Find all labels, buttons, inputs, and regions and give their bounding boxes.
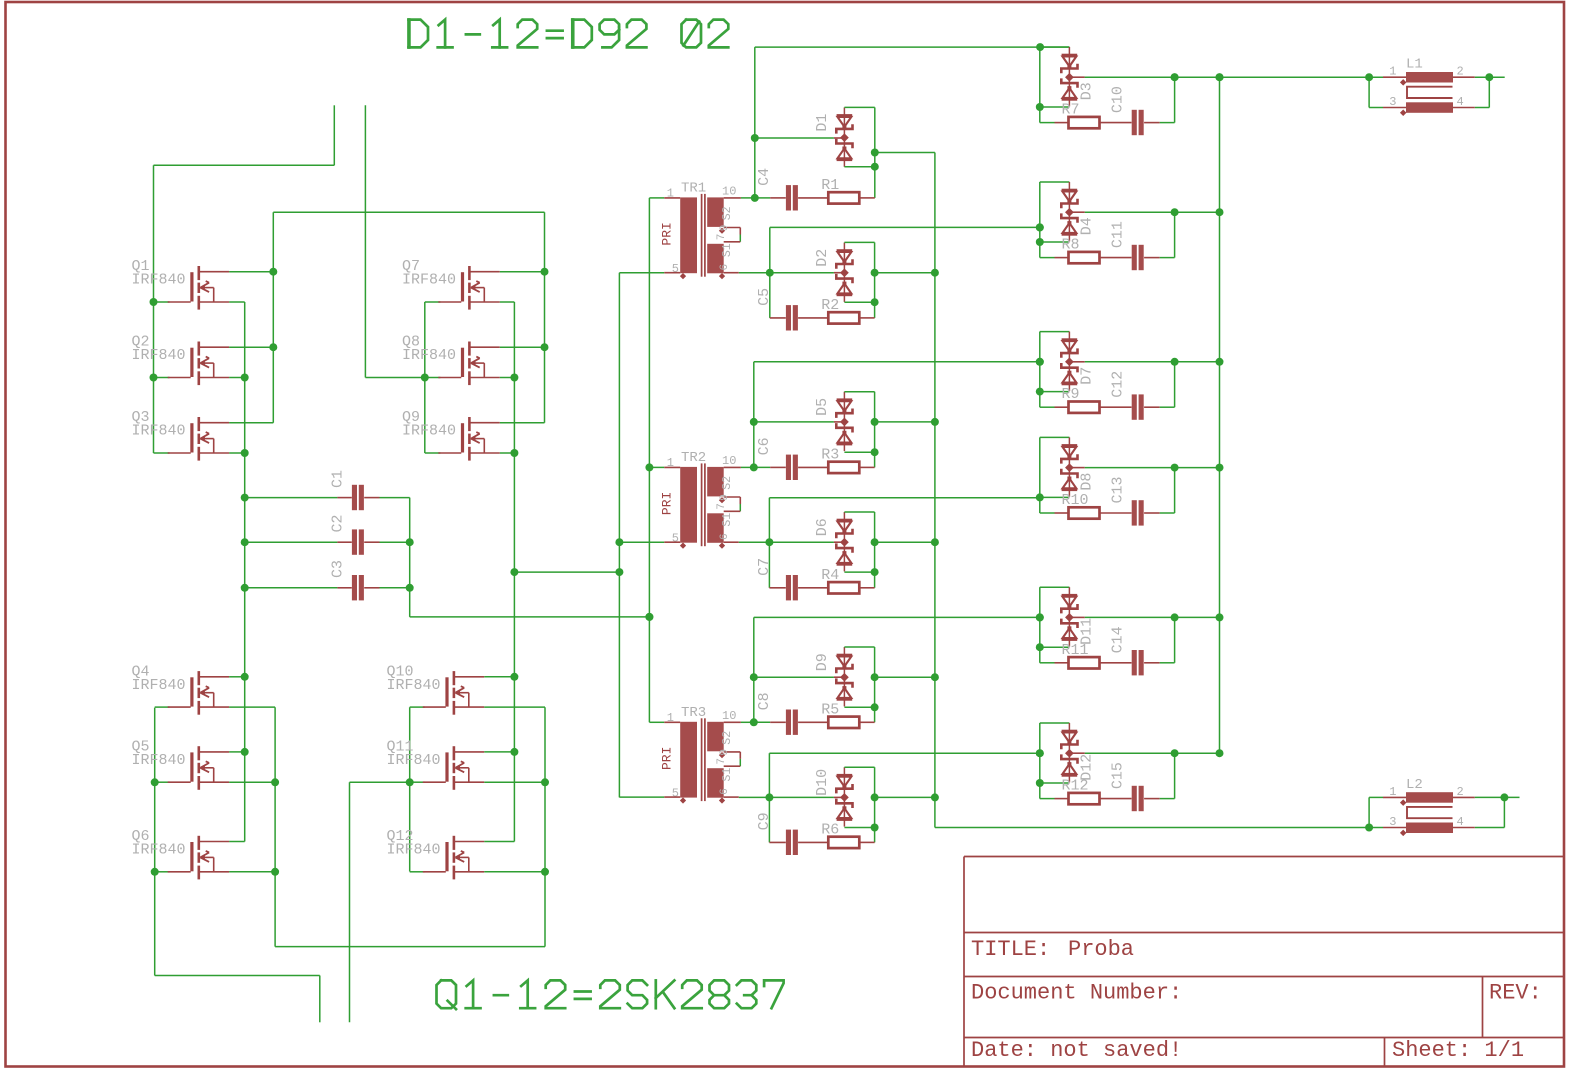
inductor L2 [1368, 797, 1370, 827]
svg-text:R9: R9 [1062, 386, 1080, 403]
junction at 754.8,138.0 [751, 134, 759, 142]
diode D2 [843, 243, 845, 302]
capacitor C1 [352, 485, 357, 510]
resistor R7 [1069, 117, 1100, 128]
wire TR1 pin5 riser to D4 input [769, 227, 771, 318]
junction at 1174.6,212.2 [1171, 208, 1179, 216]
junction at 514.4,676.8 [510, 673, 518, 681]
svg-text:R10: R10 [1062, 492, 1089, 509]
svg-text:L1: L1 [1406, 57, 1423, 73]
junction at 545,871.8 [541, 868, 549, 876]
resistor R8 [1069, 252, 1100, 263]
transistor Q6 [190, 842, 193, 871]
svg-text:5: 5 [672, 262, 679, 276]
transistor Q7 [461, 272, 464, 301]
transistor Q1 [190, 272, 193, 301]
junction at 244.7,497.6 [241, 494, 249, 502]
svg-text:D4: D4 [1078, 217, 1095, 235]
svg-text:R1: R1 [821, 177, 839, 194]
svg-text:C3: C3 [330, 560, 347, 578]
wire TR pin stubs [649, 466, 664, 468]
svg-text:TR1: TR1 [681, 180, 706, 196]
capacitor C11 [1132, 245, 1137, 270]
junction at 769.4,542.2 [765, 538, 773, 546]
svg-text:D3: D3 [1078, 82, 1095, 100]
wire top rail between drain buses [273, 211, 544, 213]
svg-text:TITLE:: TITLE: [971, 937, 1050, 962]
svg-text:PRI: PRI [660, 492, 675, 515]
svg-text:R7: R7 [1062, 102, 1080, 119]
junction at 1219.5,361.8 [1216, 358, 1224, 366]
junction at 1174.6,753.2 [1171, 749, 1179, 757]
junction at 1039.8,361.8 [1036, 358, 1044, 366]
svg-text:IRF840: IRF840 [132, 677, 186, 694]
inductor L1 [1383, 76, 1406, 78]
junction at 544.5,271.7 [541, 268, 549, 276]
svg-text:C9: C9 [756, 812, 773, 830]
svg-text:C11: C11 [1110, 221, 1127, 248]
svg-text:Date: not saved!: Date: not saved! [971, 1038, 1182, 1063]
svg-text:S1: S1 [721, 243, 734, 257]
wire D3 cell left vertical [1039, 47, 1041, 123]
svg-text:C5: C5 [756, 288, 773, 306]
svg-text:IRF840: IRF840 [132, 423, 186, 440]
junction at 769.4,797.4 [765, 793, 773, 801]
junction at 424.8,377.5 [421, 374, 429, 382]
svg-text:Proba: Proba [1068, 937, 1134, 962]
wire TR3 pin10 net vertical [741, 721, 754, 723]
junction at 1219.5,753.2 [1216, 749, 1224, 757]
svg-text:1: 1 [1389, 785, 1396, 799]
svg-text:C10: C10 [1110, 86, 1127, 113]
capacitor C2 [352, 529, 357, 554]
capacitor C12 [1132, 394, 1137, 419]
wire TR pin stubs [649, 197, 664, 199]
transistor Q10 [445, 677, 448, 706]
capacitor C14 [1132, 650, 1137, 675]
wire TR pin5 bus [618, 273, 620, 798]
resistor R4 [828, 582, 859, 593]
wire drain bus Q7-Q9 [544, 212, 546, 423]
junction at 934.9,272.7 [931, 269, 939, 277]
junction at 874.6,421.9 [871, 418, 879, 426]
wire D1 cell output [875, 152, 935, 154]
svg-text:Sheet: 1/1: Sheet: 1/1 [1392, 1038, 1524, 1063]
junction at 275.1,871.8 [271, 868, 279, 876]
junction at 275.1,782.3 [271, 778, 279, 786]
junction at 934.9,421.9 [931, 418, 939, 426]
svg-text:D6: D6 [814, 518, 831, 536]
junction at 244.7,587.8 [241, 584, 249, 592]
wire TR1 pin10 net vertical [741, 197, 755, 199]
capacitor C8 [754, 721, 770, 723]
junction at 1039.8,391.6 [1036, 388, 1044, 396]
junction at 649.4,616.9 [645, 613, 653, 621]
svg-text:PRI: PRI [660, 222, 675, 245]
junction at 753.8,421.9 [750, 418, 758, 426]
wire source bus Q1-Q3 / C1-C3 / drains Q4-Q6 [244, 302, 246, 842]
svg-text:C8: C8 [756, 692, 773, 710]
junction at 1369.1,827.5 [1365, 824, 1373, 832]
wire output rail top (L1) [1085, 76, 1383, 78]
wire right output bus [1219, 77, 1221, 753]
wire C right bus to TR pin1 bus [409, 498, 411, 617]
svg-text:IRF840: IRF840 [387, 842, 441, 859]
capacitor C6 [754, 466, 770, 468]
wire top stub to gate bus Q1-Q3 [333, 105, 335, 165]
wire D7 cell left vertical [1039, 332, 1041, 408]
junction at 409.7,542.2 [406, 538, 414, 546]
capacitor C7 [786, 575, 791, 600]
junction at 514.4,751.9 [510, 748, 518, 756]
transformer TR2 [680, 467, 697, 543]
wire TR2 pin5 net [739, 541, 834, 543]
wire gate bus tail lower-left [155, 975, 320, 977]
junction at 1174.6,361.8 [1171, 358, 1179, 366]
svg-text:9: 9 [719, 494, 731, 501]
resistor R8 [1040, 257, 1055, 259]
junction at 874.6,452.2 [871, 448, 879, 456]
svg-text:10: 10 [722, 454, 736, 468]
resistor R1 [828, 192, 859, 203]
svg-text:IRF840: IRF840 [402, 347, 456, 364]
svg-text:D10: D10 [814, 769, 831, 796]
junction at 1174.6,467.6 [1171, 464, 1179, 472]
junction at 874.6,797.4 [871, 793, 879, 801]
wire source bus Q7-Q9 / drains Q10-Q12 [513, 302, 515, 842]
wire D5 center lead [754, 421, 834, 423]
wire drain bus Q1-Q3 [272, 212, 274, 423]
junction at 244.7,377.5 [241, 374, 249, 382]
resistor R9 [1040, 406, 1055, 408]
resistor R9 [1069, 402, 1100, 413]
junction at 154.7,782.3 [151, 778, 159, 786]
svg-text:C12: C12 [1110, 371, 1127, 398]
svg-text:D2: D2 [814, 249, 831, 267]
junction at 1219.5,77.2 [1216, 73, 1224, 81]
junction at 1489.3,77.2 [1485, 73, 1493, 81]
svg-text:TR3: TR3 [681, 705, 706, 721]
wire gate bus Q4-Q6 [154, 708, 156, 976]
junction at 1039.8,753.2 [1036, 749, 1044, 757]
capacitor C6 [786, 455, 791, 480]
diode D9 [843, 647, 845, 706]
junction at 1174.6,617.4 [1171, 613, 1179, 621]
wire source bus Q10-Q12 [544, 707, 546, 946]
junction at 409.7,587.8 [406, 584, 414, 592]
junction at 619.4,542.2 [615, 538, 623, 546]
resistor R3 [828, 462, 859, 473]
junction at 273.3,271.7 [269, 268, 277, 276]
diode D12 [1068, 723, 1070, 782]
resistor R10 [1069, 507, 1100, 518]
junction at 874.6,542.2 [871, 538, 879, 546]
resistor R10 [1040, 512, 1055, 514]
svg-text:C14: C14 [1110, 626, 1127, 653]
wire D11 cell left vertical [1039, 587, 1041, 663]
junction at 769.8,272.7 [766, 269, 774, 277]
capacitor C10 [1132, 110, 1137, 135]
junction at 874.6,707.3 [871, 703, 879, 711]
wire output rail bottom (L2) [935, 827, 1369, 829]
svg-text:L2: L2 [1406, 777, 1423, 793]
transistor Q9 [461, 423, 464, 452]
svg-text:S1: S1 [721, 768, 734, 782]
svg-text:D5: D5 [814, 398, 831, 416]
diode D5 [843, 392, 845, 451]
diode D1 [843, 107, 845, 166]
diode D10 [843, 767, 845, 826]
capacitor C7 [769, 587, 785, 589]
svg-text:R8: R8 [1062, 237, 1080, 254]
wire gate feed Q10-Q12 tail [350, 781, 410, 783]
junction at 1039.8,753.2 [1036, 749, 1044, 757]
resistor R7 [1040, 122, 1055, 124]
svg-text:R6: R6 [821, 821, 839, 838]
wire TR3 pin5 net [739, 796, 834, 798]
wire source bus Q4-Q6 [274, 707, 276, 946]
capacitor C9 [769, 841, 785, 843]
wire tap sources to TR pin5 bus [514, 571, 619, 573]
junction at 1174.6,77.2 [1171, 73, 1179, 81]
svg-text:S2: S2 [721, 476, 734, 490]
junction at 545,782.3 [541, 778, 549, 786]
junction at 1219.5,617.4 [1216, 613, 1224, 621]
svg-text:1: 1 [1389, 65, 1396, 79]
svg-text:C13: C13 [1110, 476, 1127, 503]
junction at 1174.6,77.2 [1171, 73, 1179, 81]
svg-text:9: 9 [719, 749, 731, 756]
svg-text:IRF840: IRF840 [132, 842, 186, 859]
svg-text:9: 9 [719, 225, 731, 232]
junction at 154.7,871.8 [151, 868, 159, 876]
diode D6 [843, 512, 845, 571]
diode D11 [1068, 587, 1070, 646]
junction at 409.7,782.3 [406, 778, 414, 786]
capacitor C4 [755, 197, 770, 199]
note D1-12=D92 02 [409, 20, 729, 48]
svg-text:IRF840: IRF840 [132, 752, 186, 769]
wire top stub to gate bus Q7-Q9 [364, 105, 366, 377]
wire TR2 pin10 net vertical [741, 466, 754, 468]
junction at 153.5,302 [150, 298, 158, 306]
wire D9 center lead [754, 676, 834, 678]
transistor Q4 [190, 677, 193, 706]
resistor R6 [828, 837, 859, 848]
transistor Q8 [461, 348, 464, 377]
svg-text:IRF840: IRF840 [402, 272, 456, 289]
svg-text:5: 5 [672, 787, 679, 801]
resistor R2 [828, 312, 859, 323]
junction at 244.7,676.8 [241, 673, 249, 681]
svg-text:7: 7 [716, 234, 728, 241]
svg-text:S1: S1 [721, 513, 734, 527]
junction at 1039.8,617.4 [1036, 613, 1044, 621]
capacitor C8 [786, 710, 791, 735]
junction at 1219.5,467.6 [1216, 464, 1224, 472]
svg-text:D7: D7 [1078, 367, 1095, 385]
svg-text:6: 6 [719, 788, 731, 795]
junction at 1039.8,242.0 [1036, 238, 1044, 246]
wire D12 cell left vertical [1039, 723, 1041, 799]
junction at 874.6,302.2 [871, 298, 879, 306]
junction at 1219.5,212.2 [1216, 208, 1224, 216]
wire D8 cell left vertical [1039, 437, 1041, 513]
junction at 1039.8,617.4 [1036, 613, 1044, 621]
svg-text:D8: D8 [1078, 473, 1095, 491]
transistor Q2 [190, 348, 193, 377]
junction at 544.5,347.2 [541, 343, 549, 351]
svg-text:D1: D1 [814, 114, 831, 132]
svg-text:7: 7 [716, 758, 728, 765]
junction at 934.9,797.4 [931, 793, 939, 801]
wire TR3 pin5 riser to D12 input [768, 753, 770, 842]
junction at 1039.8,647.1999999999999 [1036, 643, 1044, 651]
junction at 753.8,677.2 [750, 673, 758, 681]
junction at 1039.8,107.0 [1036, 103, 1044, 111]
capacitor C13 [1132, 500, 1137, 525]
svg-text:C4: C4 [756, 168, 773, 186]
diode D8 [1068, 437, 1070, 496]
wire TR pin stubs [649, 721, 664, 723]
wire TR pin1 bus [648, 198, 650, 722]
svg-text:R2: R2 [821, 297, 839, 314]
resistor R12 [1069, 793, 1100, 804]
junction at 1039.8,361.8 [1036, 358, 1044, 366]
svg-text:Document Number:: Document Number: [971, 981, 1182, 1006]
transistor Q5 [190, 752, 193, 781]
svg-text:IRF840: IRF840 [132, 347, 186, 364]
diode D7 [1068, 332, 1070, 391]
resistor R11 [1040, 662, 1055, 664]
wire rail to D11 cell [754, 616, 1040, 618]
wire D1 center lead [755, 137, 834, 139]
svg-text:R11: R11 [1062, 642, 1089, 659]
wire bottom rail sources [275, 946, 545, 948]
junction at 244.7,453 [241, 449, 249, 457]
svg-text:5: 5 [672, 532, 679, 546]
transformer TR1 [680, 197, 697, 273]
junction at 514.4,453 [510, 449, 518, 457]
junction at 874.8,166.7 [871, 163, 879, 171]
junction at 754.8,197.9 [751, 194, 759, 202]
resistor R5 [828, 717, 859, 728]
junction at 619.4,572.1 [615, 568, 623, 576]
junction at 1039.8,227.4 [1036, 223, 1044, 231]
svg-text:TR2: TR2 [681, 450, 706, 466]
capacitor C1 [245, 497, 338, 499]
capacitor C4 [786, 185, 791, 210]
svg-text:IRF840: IRF840 [387, 752, 441, 769]
junction at 1040.1,47.1 [1036, 43, 1044, 51]
junction at 153.5,377.5 [150, 374, 158, 382]
wire gate bus Q7-Q9 [424, 302, 426, 453]
svg-text:R5: R5 [821, 701, 839, 718]
junction at 1039.8,497.40000000000003 [1036, 493, 1044, 501]
junction at 874.8,152.5 [871, 149, 879, 157]
svg-text:6: 6 [719, 264, 731, 271]
transistor Q11 [445, 752, 448, 781]
svg-text:IRF840: IRF840 [402, 423, 456, 440]
wire rail to D3 cell [755, 46, 1070, 48]
junction at 1039.8,783.0 [1036, 779, 1044, 787]
svg-text:C2: C2 [330, 514, 347, 532]
svg-text:IRF840: IRF840 [387, 677, 441, 694]
svg-text:IRF840: IRF840 [132, 272, 186, 289]
junction at 1039.8,227.4 [1036, 223, 1044, 231]
resistor R12 [1040, 798, 1055, 800]
junction at 1219.5,77.2 [1216, 73, 1224, 81]
junction at 649.4,467.4 [645, 463, 653, 471]
diode D4 [1068, 182, 1070, 241]
junction at 874.6,677.2 [871, 673, 879, 681]
junction at 273.3,347.2 [269, 343, 277, 351]
capacitor C2 [245, 541, 338, 543]
inductor L2 [1406, 792, 1453, 803]
capacitor C15 [1132, 786, 1137, 811]
svg-text:10: 10 [722, 709, 736, 723]
svg-text:6: 6 [719, 533, 731, 540]
transformer TR3 [680, 722, 697, 798]
svg-text:R3: R3 [821, 446, 839, 463]
svg-text:REV:: REV: [1489, 981, 1542, 1006]
svg-text:S2: S2 [721, 731, 734, 745]
transistor Q12 [445, 842, 448, 871]
title block [964, 857, 1564, 1066]
capacitor C9 [786, 830, 791, 855]
wire TR1 pin5 net [739, 272, 834, 274]
wire D4 cell left vertical [1039, 182, 1041, 258]
junction at 874.6,827.5 [871, 824, 879, 832]
junction at 934.9,542.2 [931, 538, 939, 546]
svg-text:C7: C7 [756, 558, 773, 576]
capacitor C3 [245, 587, 338, 589]
resistor R11 [1069, 657, 1100, 668]
junction at 514.4,572.1 [510, 568, 518, 576]
wire rail to D7 cell [754, 361, 1040, 363]
junction at 1504.4,797.4 [1500, 793, 1508, 801]
svg-text:C15: C15 [1110, 762, 1127, 789]
wire gate bus Q10-Q12 [409, 707, 411, 871]
svg-text:S2: S2 [721, 206, 734, 220]
junction at 514.4,377.5 [510, 374, 518, 382]
inductor L1 [1406, 72, 1453, 83]
junction at 244.7,542.2 [241, 538, 249, 546]
junction at 649.4,616.9 [645, 613, 653, 621]
svg-text:R12: R12 [1062, 778, 1089, 795]
wire snubber bus [934, 153, 936, 828]
svg-text:C1: C1 [330, 470, 347, 488]
capacitor C3 [352, 575, 357, 600]
svg-text:C6: C6 [756, 437, 773, 455]
transistor Q3 [190, 423, 193, 452]
capacitor C5 [770, 317, 786, 319]
note Q1-12=2SK2837 [437, 980, 784, 1009]
svg-text:10: 10 [722, 184, 736, 198]
svg-text:R4: R4 [821, 567, 839, 584]
junction at 934.9,677.2 [931, 673, 939, 681]
svg-text:D9: D9 [814, 653, 831, 671]
svg-text:7: 7 [716, 503, 728, 510]
junction at 1369.1,77.2 [1365, 73, 1373, 81]
svg-text:PRI: PRI [660, 747, 675, 770]
junction at 874.6,272.7 [871, 269, 879, 277]
diode D3 [1068, 47, 1070, 106]
capacitor C5 [786, 305, 791, 330]
junction at 753.8,722.3 [750, 718, 758, 726]
wire TR2 pin5 riser to D8 input [768, 498, 770, 588]
junction at 874.6,572.1 [871, 568, 879, 576]
